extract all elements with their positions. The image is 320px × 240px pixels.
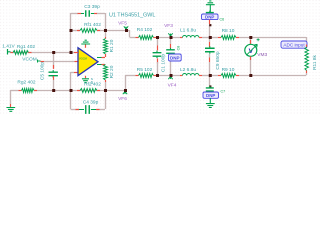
wire C1 column: [157, 37, 159, 46]
junction C1 top: [156, 36, 159, 39]
junction Rf2 right: [104, 89, 107, 92]
capacitor C4 39p: [76, 109, 80, 111]
wire R1 column: [105, 30, 107, 37]
wire C6 column: [53, 52, 55, 69]
svg-text:1.41V: 1.41V: [2, 43, 15, 49]
svg-text:R2 20: R2 20: [109, 65, 115, 78]
junction C5 bottom on IN+ net: [52, 89, 55, 92]
label ADC input: [281, 41, 307, 48]
capacitor C1 100p: [157, 46, 159, 51]
svg-text:R11 8k: R11 8k: [312, 54, 318, 69]
junction Rf2 left: [70, 89, 73, 92]
ground bottom of U1: [85, 76, 87, 79]
svg-text:C3 39p: C3 39p: [84, 4, 100, 10]
capacitor C5 100p input: [53, 65, 55, 69]
svg-text:L1 6.8u: L1 6.8u: [180, 27, 196, 33]
svg-text:C5 100p: C5 100p: [40, 62, 46, 80]
svg-text:VM3: VM3: [257, 52, 267, 58]
wire top rail: [130, 37, 136, 39]
ground top inverted (DNP top column): [206, 1, 215, 13]
wire input rail y52: [10, 52, 74, 54]
wire C3 row: [71, 13, 79, 15]
junction C5 top on IN- net: [52, 51, 55, 54]
junction Rf1 right: [104, 29, 107, 32]
svg-text:Rg2 402: Rg2 402: [17, 79, 35, 85]
svg-text:DNP: DNP: [206, 93, 215, 98]
ground bottom left: [10, 104, 12, 107]
svg-text:ADC input: ADC input: [283, 43, 305, 48]
svg-text:VF4: VF4: [168, 83, 177, 89]
junction VF4 node: [170, 74, 173, 77]
wire feedback left column: [70, 13, 72, 52]
svg-text:Rg1 402: Rg1 402: [17, 44, 35, 50]
inductor L1 6.8u: [180, 37, 183, 39]
wire IN- stub into amp: [71, 52, 75, 54]
wire Cmid column: [209, 37, 211, 42]
svg-text:Rf2 402: Rf2 402: [84, 82, 101, 88]
wire bottom rail: [125, 75, 136, 77]
resistor Rg2 402: [19, 90, 22, 92]
svg-text:U1 THS4551_GWL: U1 THS4551_GWL: [109, 13, 155, 19]
voltmeter VM3: [250, 40, 252, 45]
junction VF6 node: [124, 89, 127, 92]
junction C9 top: [209, 36, 212, 39]
resistor R5 102: [136, 75, 139, 77]
capacitor C3 39p: [78, 13, 82, 15]
resistor R9 10: [218, 75, 221, 77]
svg-text:C8: C8: [177, 46, 181, 51]
inductor L2 6.8u: [180, 75, 183, 77]
junction VM3 bottom: [249, 74, 252, 77]
svg-text:R5 102: R5 102: [137, 67, 153, 73]
node VF6: [123, 91, 127, 95]
svg-text:R1 20: R1 20: [109, 39, 115, 52]
wire out+ pin: [97, 57, 102, 59]
svg-text:VF3: VF3: [164, 23, 173, 29]
wire R2 column to Rf2 row: [105, 82, 107, 90]
svg-text:DNP: DNP: [170, 55, 180, 60]
svg-text:DNP: DNP: [205, 15, 214, 20]
junction Rf1 left: [70, 29, 73, 32]
svg-text:VF5: VF5: [118, 20, 127, 26]
resistor Rf2 402: [77, 90, 80, 92]
ground bottom (DNP bottom column): [209, 98, 211, 103]
svg-text:C1 100p: C1 100p: [161, 54, 167, 72]
resistor R8 10: [218, 37, 221, 39]
svg-text:VOCM: VOCM: [79, 56, 87, 60]
svg-text:R4 102: R4 102: [137, 27, 153, 33]
wire DNP bottom column: [209, 75, 211, 86]
junction C1 bottom: [156, 74, 159, 77]
wire DNP top column: [209, 25, 211, 37]
wire DNP mid column: [170, 37, 172, 44]
junction VF3 node: [170, 36, 173, 39]
resistor R11 8k: [306, 45, 308, 48]
wire Rf1 row: [71, 30, 81, 32]
svg-text:R9 10: R9 10: [222, 67, 235, 73]
wire voltmeter column: [250, 37, 252, 44]
wire Rg2 row: [10, 90, 18, 92]
resistor R4 102: [136, 37, 139, 39]
wire VCOM to amp: [44, 61, 75, 63]
capacitor C7 DNP bottom: [209, 85, 211, 87]
svg-text:Rf1 402: Rf1 402: [84, 22, 101, 28]
svg-text:L2 6.8u: L2 6.8u: [180, 67, 196, 73]
resistor R1 20: [105, 37, 107, 39]
svg-text:C9 650p: C9 650p: [215, 51, 221, 69]
resistor Rf1 402: [77, 30, 80, 32]
op-amp U1 THS4551_GWL: [78, 48, 98, 76]
resistor Rg1 402: [11, 52, 14, 54]
svg-text:C6: C6: [220, 18, 225, 22]
resistor R2 20: [97, 64, 102, 66]
ground top of U1 (inverted): [85, 45, 87, 48]
capacitor C9 650p mid: [209, 42, 211, 47]
capacitor C6 DNP top: [206, 13, 214, 16]
svg-text:C7: C7: [221, 90, 226, 94]
junction VF5 node: [125, 29, 128, 32]
svg-text:C4 39p: C4 39p: [83, 100, 99, 106]
svg-text:VF6: VF6: [118, 96, 127, 102]
wire IN+ from amp: [71, 72, 75, 74]
svg-text:R8 10: R8 10: [222, 28, 235, 34]
node VF4: [168, 76, 172, 80]
junction feedback1 on IN- net: [70, 51, 73, 54]
junction VM3 top: [249, 36, 252, 39]
svg-text:VCOM: VCOM: [22, 57, 36, 63]
voltage source V1 1.41V: [8, 49, 11, 55]
junction C9 bottom: [209, 74, 212, 77]
wire C4 row: [70, 90, 72, 109]
capacitor C2 DNP mid: [170, 44, 172, 48]
